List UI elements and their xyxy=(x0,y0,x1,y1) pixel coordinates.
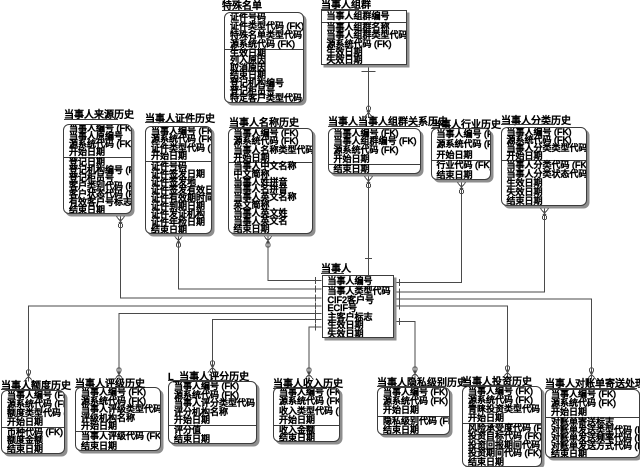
relationship 当事人—当事人投资历史 xyxy=(394,303,513,378)
relationship 当事人—当事人分类历史 xyxy=(394,208,550,296)
entity 当事人行业历史 xyxy=(431,121,501,131)
entity 当事人对账单寄送处理历史 xyxy=(545,380,640,390)
relationship 当事人—当事人当事人组群关系历史 xyxy=(364,176,373,275)
entity 当事人名称历史 xyxy=(229,119,299,129)
relationship 当事人—当事人收入历史 xyxy=(305,324,322,380)
relationship 当事人组群—当事人当事人组群关系历史 (parent tick + line + crow-foot/circle child end) xyxy=(362,65,376,118)
entity 当事人分类历史 xyxy=(501,117,571,127)
entity 当事人收入历史 xyxy=(273,380,343,390)
entity 当事人 xyxy=(321,265,351,275)
entity 当事人来源历史 xyxy=(64,111,134,121)
relationship 当事人—当事人来源历史 xyxy=(116,216,322,302)
entity 当事人额度历史 xyxy=(1,382,71,392)
relationship 当事人—当事人证件历史 xyxy=(174,236,322,293)
entity L_当事人评分历史 xyxy=(168,373,249,383)
relationship 当事人—L_当事人评分历史 xyxy=(208,316,322,373)
entity 当事人评级历史 xyxy=(75,380,145,390)
entity 当事人投资历史 xyxy=(462,378,532,388)
relationship 当事人—当事人名称历史 xyxy=(264,236,322,285)
entity 当事人隐私级别历史 xyxy=(377,379,467,389)
relationship 当事人—当事人对账单寄送处理历史 xyxy=(394,296,597,380)
entity 当事人证件历史 xyxy=(145,115,215,125)
relationship 当事人—当事人行业历史 xyxy=(394,182,467,286)
entity 当事人组群 xyxy=(321,1,371,11)
relationship 当事人—当事人评级历史 xyxy=(115,310,322,380)
relationship 当事人—当事人隐私级别历史 xyxy=(394,318,420,379)
relationship 当事人—当事人额度历史 xyxy=(24,303,322,382)
entity 当事人当事人组群关系历史 xyxy=(328,118,448,128)
entity 特殊名单 xyxy=(222,2,262,12)
